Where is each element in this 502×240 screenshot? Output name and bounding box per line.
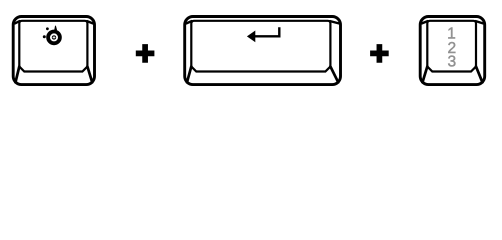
svg-text:3: 3 [448,54,457,71]
